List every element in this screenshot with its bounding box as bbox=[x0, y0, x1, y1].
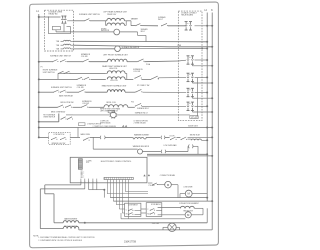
svg-text:LOW COIL: LOW COIL bbox=[110, 80, 118, 82]
svg-text:° DLB LMT: ° DLB LMT bbox=[151, 223, 159, 225]
svg-text:COIL SW: COIL SW bbox=[81, 56, 88, 58]
svg-text:RT OVEN LT SW: RT OVEN LT SW bbox=[137, 85, 150, 87]
svg-text:P1: P1 bbox=[41, 67, 43, 69]
svg-text:IND LT: IND LT bbox=[158, 19, 163, 21]
svg-text:C: C bbox=[126, 209, 127, 211]
svg-text:SMOKE ELIM: SMOKE ELIM bbox=[190, 134, 201, 136]
svg-text:INTERIOR LIGHT SW: INTERIOR LIGHT SW bbox=[52, 143, 66, 145]
svg-text:CONVECTION FAN: CONVECTION FAN bbox=[160, 174, 176, 177]
svg-text:UNIT SWITCH: UNIT SWITCH bbox=[43, 72, 55, 74]
svg-text:C: C bbox=[147, 209, 148, 211]
svg-text:2 OVEN 3 BULBS: 2 OVEN 3 BULBS bbox=[134, 122, 146, 124]
svg-text:LOW DRIVE: LOW DRIVE bbox=[184, 187, 193, 189]
svg-text:WITH 3 BULBS: WITH 3 BULBS bbox=[100, 122, 110, 124]
svg-text:DOOR MECH: DOOR MECH bbox=[128, 204, 137, 206]
svg-text:SURFACE UNIT SWITCH: SURFACE UNIT SWITCH bbox=[51, 86, 72, 89]
svg-text:HIGH COIL: HIGH COIL bbox=[109, 68, 117, 70]
svg-text:BROIL COIL: BROIL COIL bbox=[107, 102, 116, 104]
svg-text:SURFACE UNIT SWITCH: SURFACE UNIT SWITCH bbox=[50, 54, 71, 57]
svg-text:BAKE ELEMENT: BAKE ELEMENT bbox=[64, 218, 77, 221]
svg-text:ELECTRONIC OVEN CONTROL: ELECTRONIC OVEN CONTROL bbox=[101, 161, 132, 163]
svg-text:LOW OVEN FAN: LOW OVEN FAN bbox=[164, 144, 178, 147]
svg-text:SHUNT: SHUNT bbox=[101, 28, 107, 30]
svg-text:COIL SW: COIL SW bbox=[77, 87, 84, 89]
svg-text:RTD: RTD bbox=[86, 162, 89, 164]
svg-text:5 OVEN: 5 OVEN bbox=[86, 160, 91, 162]
svg-text:CONVECTION ELEMENT: CONVECTION ELEMENT bbox=[179, 203, 199, 205]
svg-text:2350W 120V: 2350W 120V bbox=[107, 14, 117, 16]
svg-text:COIL SW: COIL SW bbox=[82, 103, 89, 105]
svg-text:BROIL PRE SW: BROIL PRE SW bbox=[61, 102, 74, 104]
svg-text:IND LT: IND LT bbox=[141, 31, 146, 33]
svg-text:2 OVEN LTS: 2 OVEN LTS bbox=[100, 120, 109, 122]
svg-text:LEFT OVEN LT SWITCH: LEFT OVEN LT SWITCH bbox=[100, 111, 119, 113]
svg-text:OVEN SWITCH: OVEN SWITCH bbox=[43, 117, 56, 119]
svg-text:316417708: 316417708 bbox=[124, 240, 137, 243]
svg-text:3400W 240V: 3400W 240V bbox=[188, 125, 199, 127]
svg-text:SURFACE UNIT SWITCH: SURFACE UNIT SWITCH bbox=[79, 13, 100, 16]
svg-text:NOTE:: NOTE: bbox=[33, 235, 39, 237]
svg-text:LEFT REAR SURFACE UNIT: LEFT REAR SURFACE UNIT bbox=[103, 10, 127, 13]
svg-text:LITE SWITCH: LITE SWITCH bbox=[54, 134, 65, 136]
svg-text:COIL SW: COIL SW bbox=[133, 71, 140, 73]
svg-text:REAR RIGHT SURFACE UNIT: REAR RIGHT SURFACE UNIT bbox=[102, 84, 128, 87]
svg-text:RELAY BD: RELAY BD bbox=[49, 13, 59, 16]
svg-text:RELAY BOARD: RELAY BOARD bbox=[181, 13, 194, 16]
svg-text:DOOR MECH: DOOR MECH bbox=[151, 204, 160, 206]
svg-text:LEFT FRONT SURFACE UNIT: LEFT FRONT SURFACE UNIT bbox=[103, 54, 129, 57]
svg-text:LT SWITCH OPTION: LT SWITCH OPTION bbox=[134, 120, 148, 122]
svg-text:REAR RIGHT SURFACE UNIT: REAR RIGHT SURFACE UNIT bbox=[102, 65, 128, 68]
svg-text:2. COMPONENTS WITH °ON OFF O: 2. COMPONENTS WITH °ON OFF OPTION OF EL … bbox=[38, 240, 82, 242]
svg-text:DOOR: DOOR bbox=[170, 135, 176, 137]
svg-text:P10: P10 bbox=[131, 101, 134, 103]
